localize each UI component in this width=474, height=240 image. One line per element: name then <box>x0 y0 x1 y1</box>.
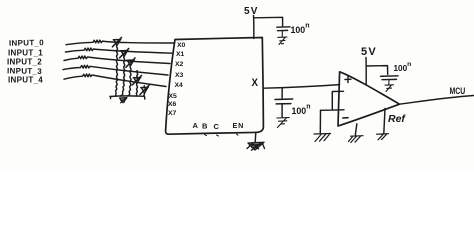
svg-text:X: X <box>252 78 259 90</box>
wire 5V branch to op-amp cap <box>366 66 388 75</box>
ground under op-amp cap <box>385 80 394 92</box>
svg-text:INPUT_0: INPUT_0 <box>9 38 44 48</box>
op-amp ref stem to ground <box>384 109 385 134</box>
capacitor 100n (mux 5V decoupling) <box>277 27 290 31</box>
ground under output filter cap <box>277 118 289 128</box>
wire INPUT_4 with series resistor <box>64 74 166 87</box>
svg-text:X4: X4 <box>175 82 184 89</box>
svg-text:B: B <box>202 122 208 131</box>
wire INPUT_2 with series resistor <box>64 56 170 64</box>
pin ticks under A B C EN <box>205 134 239 136</box>
svg-text:X5: X5 <box>169 93 178 100</box>
protection zener diode on INPUT_1 <box>120 48 129 96</box>
output wire to MCU <box>400 96 474 105</box>
svg-text:C: C <box>214 122 220 131</box>
wire mux X output to op-amp <box>263 85 339 89</box>
svg-text:X7: X7 <box>168 110 177 117</box>
svg-text:100n: 100n <box>292 103 311 116</box>
svg-text:Ref: Ref <box>388 113 406 125</box>
capacitor 100n (mux output filter) <box>281 88 283 98</box>
svg-text:X0: X0 <box>177 42 186 49</box>
ground under mux 5V cap <box>278 31 287 45</box>
svg-text:INPUT_1: INPUT_1 <box>8 48 43 57</box>
multiplexer IC body <box>166 38 264 135</box>
svg-text:100n: 100n <box>291 23 310 36</box>
wire 5V branch to cap <box>254 17 283 26</box>
svg-text:INPUT_4: INPUT_4 <box>8 75 43 84</box>
svg-text:X2: X2 <box>175 61 184 68</box>
svg-text:X3: X3 <box>175 72 184 79</box>
capacitor 100n (op-amp decoupling) <box>381 76 399 80</box>
op-amp U1 <box>338 72 400 126</box>
wire INPUT_1 with series resistor <box>66 48 173 53</box>
wire loop to ground <box>319 110 321 133</box>
svg-text:EN: EN <box>233 121 245 130</box>
ground rail under zeners <box>110 96 145 99</box>
mux ground <box>254 132 257 142</box>
wire INPUT_0 with series resistor <box>66 40 174 45</box>
op-amp V- stem to ground <box>355 124 356 135</box>
svg-text:X6: X6 <box>168 101 177 108</box>
ground (op-amp V-) <box>349 136 364 143</box>
svg-text:INPUT_2: INPUT_2 <box>7 57 42 66</box>
wire 5V to mux <box>253 16 255 39</box>
svg-text:5V: 5V <box>361 46 377 58</box>
op-amp - input mark <box>343 117 348 119</box>
svg-text:5V: 5V <box>244 6 259 17</box>
svg-text:X1: X1 <box>176 51 185 58</box>
feedback loop at op-amp inverting input <box>321 91 345 110</box>
svg-text:MCU: MCU <box>450 85 466 96</box>
svg-text:100n: 100n <box>394 61 412 73</box>
ground (ref) <box>377 134 389 140</box>
protection zener diode on INPUT_2 <box>126 58 135 96</box>
wire 5V to op-amp <box>365 58 367 85</box>
wire INPUT_3 with series resistor <box>63 65 168 75</box>
protection zener diode on INPUT_3 <box>132 71 141 96</box>
protection zener diode on INPUT_4 <box>140 85 149 96</box>
protection zener diode on INPUT_0 <box>112 37 121 96</box>
op-amp + input mark <box>345 76 351 82</box>
ground scribble on rail <box>120 98 128 103</box>
ground (op-amp input network) <box>314 134 331 142</box>
svg-text:A: A <box>193 121 199 130</box>
